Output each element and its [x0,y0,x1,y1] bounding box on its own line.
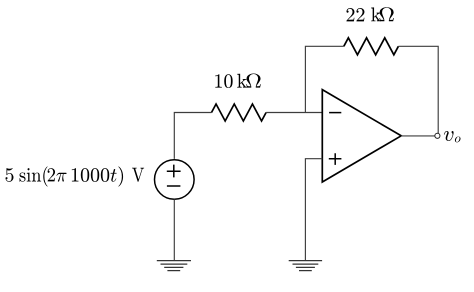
wire: source top terminal up then right to 10k resistor [174,113,211,159]
wire: op-amp non-inverting input left then down to ground [305,159,322,261]
label source "2pi" [48,168,67,182]
label R2 unit "Ohm" [379,7,394,21]
op-amp U1 triangle body [322,90,401,182]
label R2 value "22" [346,8,364,21]
label R1 unit "k" [237,74,247,88]
label source "1000t)" [72,167,123,187]
node vo open output terminal [435,133,440,138]
ground symbol at op-amp non-inverting input [289,261,322,271]
label R1 value "10" [215,74,232,88]
ground symbol at source [157,261,191,271]
label R2 unit "k" [371,7,381,21]
resistor R2 22 kOhm zigzag [344,38,399,55]
label source "sin(" [20,167,48,187]
wire: source bottom terminal down to ground [173,199,175,260]
voltage source minus sign [167,185,181,187]
label output node "v" [444,131,454,141]
voltage source plus sign [167,165,181,178]
wire: op-amp output to terminal [401,135,435,137]
wire: 22k resistor right then down to output node [398,46,438,133]
voltage source VS1 circle [155,160,195,200]
op-amp inverting input minus sign [329,112,341,114]
wire: 10k resistor to op-amp inverting input [266,112,322,114]
label output node subscript "o" [455,136,461,142]
label source unit "V" [132,168,144,182]
resistor R1 10 kOhm zigzag [212,104,267,121]
wire: feedback tap from inverting input node up to 22k resistor [305,46,343,112]
label source "5" [6,168,14,182]
label R1 unit "Ohm" [246,74,261,88]
op-amp non-inverting input plus sign [329,153,342,165]
